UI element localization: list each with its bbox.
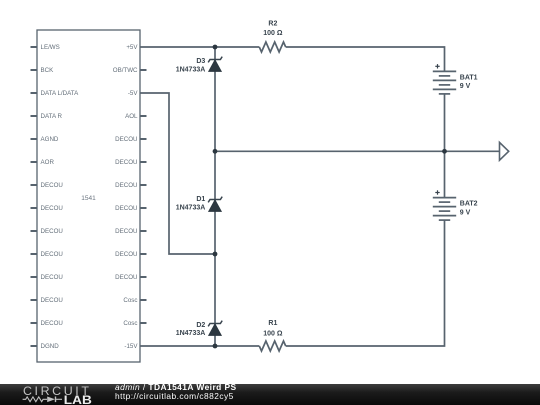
svg-text:AGND: AGND [41,136,59,143]
svg-text:DECOU: DECOU [115,182,137,189]
svg-text:9 V: 9 V [460,209,471,216]
svg-text:-15V: -15V [124,343,138,350]
wire -15V net: R1 right lead to BAT2 bottom corner [286,220,445,346]
svg-text:DECOU: DECOU [41,251,63,258]
footer text [115,383,237,401]
resistor R1 zigzag [259,341,285,351]
svg-text:R1: R1 [268,320,277,327]
wire battery rail: BAT1 bottom to BAT2 top [444,94,446,198]
logo resistor/diode line [23,397,47,402]
svg-text:AOR: AOR [41,159,55,166]
battery BAT2 labels [460,201,478,217]
svg-text:DECOU: DECOU [115,159,137,166]
svg-text:+5V: +5V [126,44,138,51]
battery BAT1 labels [460,75,478,91]
svg-text:DECOU: DECOU [41,182,63,189]
IC U1 right pins (stubs) [140,70,147,323]
resistor R1 labels [263,320,283,338]
svg-text:DECOU: DECOU [41,205,63,212]
battery BAT1 plates [433,71,456,94]
svg-text:Cosc: Cosc [123,297,137,304]
wire output net: rail junction to arrow [215,150,500,152]
svg-text:D3: D3 [196,58,205,65]
svg-text:-5V: -5V [128,90,139,97]
svg-text:1N4733A: 1N4733A [176,205,206,212]
svg-text:D1: D1 [196,196,205,203]
IC U1 right pin labels [113,44,139,350]
wire zener rail x=215 from +5V wire down to -15V wire [214,47,216,346]
junction dot at output wire / rail [213,149,218,154]
svg-text:DECOU: DECOU [41,297,63,304]
junction dot at output wire / battery rail [442,149,447,154]
svg-text:DECOU: DECOU [41,228,63,235]
svg-text:LAB: LAB [64,395,92,405]
resistor R2 labels [263,20,283,37]
svg-text:1N4733A: 1N4733A [176,67,206,74]
zener diode D2 labels [176,322,206,337]
svg-text:BAT1: BAT1 [460,75,478,82]
svg-text:100 Ω: 100 Ω [263,330,283,337]
svg-text:AOL: AOL [125,113,138,120]
svg-text:1N4733A: 1N4733A [176,330,206,337]
battery BAT2 plates [433,198,456,221]
CircuitLab logo [0,384,110,405]
svg-text:DGND: DGND [41,343,60,350]
IC U1 1541 body [37,30,140,362]
zener diode D2 [208,321,222,336]
svg-text:DECOU: DECOU [41,274,63,281]
IC U1 left pin labels [41,44,80,350]
svg-text:DATA L/DATA: DATA L/DATA [41,90,80,97]
junction dot at -15V wire / rail [213,344,218,349]
battery BAT1 plus sign [435,64,439,68]
svg-text:DECOU: DECOU [41,320,63,327]
svg-text:DATA R: DATA R [41,113,63,120]
svg-text:DECOU: DECOU [115,251,137,258]
wire +5V net: R2 right lead to BAT1 corner [286,47,445,71]
svg-text:Cosc: Cosc [123,320,137,327]
zener diode D1 [208,197,222,212]
resistor R2 zigzag [259,42,285,52]
zener diode D1 labels [176,196,206,212]
svg-text:DECOU: DECOU [115,228,137,235]
svg-text:BAT2: BAT2 [460,201,478,208]
IC U1 left pins (stubs) [31,47,38,346]
wire -5V net: IC -5V pin right, down, to rail [140,93,215,254]
svg-text:OB/TWC: OB/TWC [113,67,138,74]
svg-text:R2: R2 [268,20,277,27]
svg-text:DECOU: DECOU [115,136,137,143]
footer bar [0,384,540,405]
wire +5V net: IC +5V pin to R2 left lead [140,46,259,48]
battery BAT2 plus sign [435,190,439,194]
svg-text:100 Ω: 100 Ω [263,30,283,37]
output arrow flag [500,142,509,160]
junction dot at +5V wire / rail [213,45,218,50]
wire -15V net: IC -15V pin to R1 left lead [140,345,259,347]
zener diode D3 labels [176,58,206,74]
svg-text:DECOU: DECOU [115,205,137,212]
svg-text:LE/WS: LE/WS [41,44,60,51]
svg-text:D2: D2 [196,322,205,329]
svg-text:9 V: 9 V [460,83,471,90]
svg-text:BCK: BCK [41,67,55,74]
junction dot at -5V wire / rail [213,252,218,257]
zener diode D3 [208,57,222,72]
svg-text:1541: 1541 [81,195,96,202]
svg-text:DECOU: DECOU [115,274,137,281]
